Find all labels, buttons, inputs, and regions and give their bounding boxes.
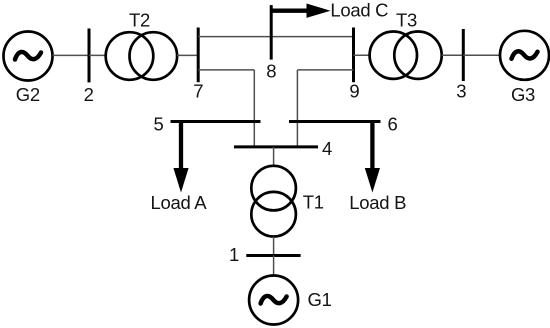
- svg-text:G2: G2: [16, 84, 40, 105]
- wire bus 1 to G1: [273, 256, 275, 276]
- svg-text:T2: T2: [129, 10, 150, 31]
- generator G3: [500, 31, 549, 80]
- wire tap 7 down to bus 4: [253, 70, 255, 147]
- wire bus 3 to G3: [463, 54, 500, 56]
- bus 1: [246, 254, 300, 257]
- wire line 7-8-9: [198, 36, 353, 38]
- wire bus 2 to T2: [89, 54, 107, 56]
- load A arrow: [173, 122, 188, 193]
- svg-text:2: 2: [84, 84, 94, 105]
- svg-text:G1: G1: [308, 289, 332, 310]
- bus 3: [462, 29, 465, 81]
- wire bus 4 to T1: [273, 147, 275, 167]
- wire T2 to bus 7: [177, 54, 198, 56]
- wire bus 7 tap: [198, 69, 254, 71]
- bus 9: [352, 28, 355, 83]
- generator G2: [4, 32, 53, 81]
- wire G2 to bus 2: [53, 54, 90, 56]
- svg-text:Load C: Load C: [330, 0, 388, 20]
- transformer T1: [251, 166, 296, 237]
- svg-text:8: 8: [266, 61, 276, 82]
- svg-text:1: 1: [229, 244, 239, 265]
- wire T3 to bus 3: [442, 54, 464, 56]
- svg-text:7: 7: [193, 81, 203, 102]
- transformer T2: [106, 32, 177, 80]
- svg-text:4: 4: [322, 138, 332, 159]
- svg-text:6: 6: [388, 114, 398, 135]
- generator G1: [249, 276, 298, 325]
- svg-text:Load A: Load A: [151, 192, 208, 213]
- bus 5: [171, 120, 261, 123]
- svg-text:T1: T1: [303, 192, 324, 213]
- svg-text:5: 5: [154, 114, 164, 135]
- transformer T3: [370, 32, 442, 79]
- svg-text:G3: G3: [511, 84, 535, 105]
- bus 7: [197, 28, 200, 83]
- svg-text:3: 3: [456, 81, 466, 102]
- bus 2: [88, 29, 91, 83]
- wire tap 9 down to bus 4: [296, 70, 298, 147]
- svg-text:Load B: Load B: [349, 192, 406, 213]
- wire T1 to bus 1: [273, 237, 275, 256]
- bus 8: [270, 5, 273, 60]
- load C arrow: [271, 4, 330, 18]
- wire bus 9 tap: [297, 69, 353, 71]
- load B arrow: [365, 122, 380, 193]
- svg-text:T3: T3: [396, 10, 417, 31]
- bus 4: [234, 145, 318, 148]
- bus 6: [289, 120, 381, 123]
- svg-text:9: 9: [349, 81, 359, 102]
- wire bus 9 to T3: [354, 54, 371, 56]
